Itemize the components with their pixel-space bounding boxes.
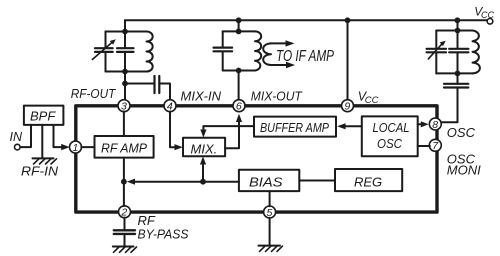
wire: bias tap up to MIX [202, 162, 204, 182]
label RF BY-PASS [138, 213, 189, 242]
ground: RF-IN [33, 158, 57, 164]
capacitor: RF by-pass [114, 230, 135, 234]
svg-text:OSC: OSC [447, 125, 476, 140]
pin 1 [70, 141, 82, 154]
wire: secondary top lead to IF amp [271, 42, 286, 44]
arrowhead: bias into RF AMP node [127, 179, 135, 185]
wire: pin 9 VCC feed [347, 20, 349, 100]
capacitor: OSC series [444, 84, 468, 88]
IC package outline [76, 106, 437, 212]
wire: MIX tank feed from rail [238, 20, 240, 31]
wire: RF tank top bar [106, 31, 147, 33]
wire: buffer node to MIX LO injection [203, 126, 254, 132]
wire: secondary bottom lead to IF amp [271, 64, 286, 66]
wire: MIX tank to pin 6 [238, 71, 240, 100]
svg-text:8: 8 [432, 119, 438, 131]
svg-text:MIX-OUT: MIX-OUT [251, 89, 303, 104]
block: BIAS [239, 170, 299, 191]
arrowhead: to IF amp (bottom) [286, 62, 295, 68]
wire: LOCAL OSC to pin 7 [418, 145, 430, 147]
svg-text:BY-PASS: BY-PASS [138, 227, 189, 242]
variable capacitor: RF tank tuning [92, 32, 116, 72]
wire: pin 1 to RF AMP [81, 146, 94, 148]
svg-text:LOCAL: LOCAL [373, 120, 410, 135]
wire: RF AMP to pin 3 [123, 112, 125, 137]
svg-text:RF AMP: RF AMP [101, 141, 147, 156]
svg-text:MIX-IN: MIX-IN [181, 89, 222, 104]
capacitor: RF tank fixed [117, 32, 134, 72]
svg-text:BIAS: BIAS [249, 175, 283, 190]
capacitor: OSC tank fixed [449, 31, 468, 74]
inductor: OSC tank coil [473, 31, 480, 74]
svg-text:IN: IN [10, 129, 23, 144]
pin 7 [429, 139, 441, 152]
wire: RF tank to pin 3 [124, 72, 126, 100]
block: BUFFER AMP [254, 117, 336, 137]
arrowhead: bias into MIX bottom [200, 157, 206, 165]
variable capacitor: OSC tank tuning [427, 31, 446, 74]
wire: RF tank feed from rail [124, 20, 126, 31]
wire: LOCAL OSC to BUFFER AMP [345, 125, 362, 127]
wire: tap to coupling capacitor [125, 83, 154, 85]
arrowhead: into BUFFER AMP [337, 123, 346, 129]
wire: OSC tank feed from rail [457, 20, 459, 30]
wire: series capacitor to pin 8 [441, 89, 457, 123]
svg-text:RF-IN: RF-IN [21, 164, 59, 179]
wire: BIAS to REG [299, 180, 335, 182]
label VCC (top right) [474, 4, 494, 20]
wire: bypass capacitor to ground [124, 235, 126, 246]
pin 3 [118, 100, 130, 113]
ground: RF by-pass [113, 247, 137, 253]
svg-text:BPF: BPF [30, 109, 56, 124]
junction: OSC tank top [455, 28, 461, 34]
wire: OSC tank to series capacitor [457, 73, 459, 82]
svg-text:MIX.: MIX. [191, 141, 218, 156]
junction: top rail / pin 9 feed [345, 17, 351, 23]
pin 6 [233, 100, 245, 113]
junction: RF tank top [122, 29, 128, 35]
pin 9 [342, 100, 354, 113]
inductor: MIX tank primary coil [255, 31, 261, 70]
wire: OSC tank bottom bar [436, 72, 472, 74]
terminal: IN [14, 144, 20, 150]
svg-text:9: 9 [344, 101, 350, 113]
inductor: IF transformer secondary [263, 43, 271, 65]
svg-text:CC: CC [365, 95, 379, 106]
svg-text:OSC: OSC [377, 136, 403, 151]
svg-text:RF-OUT: RF-OUT [71, 86, 116, 101]
wire: OSC tank top bar [436, 30, 472, 32]
label LOCAL OSC [373, 120, 410, 151]
wire: VCC top rail [125, 19, 487, 21]
junction: RF AMP bias node [121, 179, 127, 185]
svg-text:1: 1 [73, 142, 79, 154]
arrowhead: into pin 1 [61, 144, 69, 150]
arrowhead: LO injection into MIX top [200, 130, 206, 138]
label VCC (pin 9) [358, 90, 379, 107]
block: RF AMP [95, 136, 154, 158]
svg-text:6: 6 [236, 101, 242, 113]
arrowhead: into pin 8 [421, 121, 429, 127]
terminal: VCC (top right) [487, 19, 493, 25]
svg-text:CC: CC [481, 10, 494, 20]
capacitor: RF-OUT to MIX-IN coupling [155, 76, 160, 93]
pin 8 [429, 118, 441, 131]
arrowhead: to IF amp (top) [286, 40, 295, 46]
wire: MIX tank bottom bar [223, 70, 255, 72]
label OSC MONI (pin 7) [447, 152, 481, 178]
junction: bias line / MIX bias tap [200, 179, 206, 185]
svg-text:REG: REG [354, 174, 382, 189]
ground: pin 5 [259, 246, 283, 252]
wire: BIAS to RF AMP bias node [133, 181, 239, 183]
pin 5 [264, 206, 276, 219]
wire: LOCAL OSC to pin 8 [418, 123, 421, 125]
wire: pin 5 to ground [269, 218, 271, 245]
wire: BPF right leg to pin 1 [54, 125, 63, 147]
junction: OSC tank bottom [455, 71, 461, 77]
arrowhead: into MIX input [175, 144, 183, 150]
capacitor: MIX tank [214, 31, 233, 70]
pin 4 [164, 100, 176, 113]
block: LOCAL OSC [362, 116, 418, 156]
arrowhead: MIX output into pin 6 [236, 114, 242, 122]
block: MIX [183, 138, 225, 157]
wire: IN terminal to BPF left leg [20, 125, 31, 147]
svg-text:MONI: MONI [447, 163, 481, 178]
wire: pin 2 to bypass capacitor [124, 218, 126, 230]
block: REG [335, 169, 402, 191]
inductor: RF tank coil [147, 32, 153, 72]
wire: MIX tank top bar [223, 30, 255, 32]
svg-text:BUFFER AMP: BUFFER AMP [260, 121, 330, 135]
junction: top rail / RF tank feed [236, 17, 242, 23]
wire: RF tank bottom bar [106, 71, 147, 73]
junction: RF tank bottom [122, 69, 128, 75]
junction: top rail / OSC tank feed [455, 17, 461, 23]
wire: coupling capacitor to pin 4 [159, 84, 170, 100]
wire: BPF middle leg to ground [41, 125, 43, 158]
block: BPF [24, 106, 64, 125]
wire: pin 4 to MIX input [170, 112, 178, 148]
wire: RF AMP bottom to pin 2 [123, 158, 125, 206]
svg-text:TO IF AMP: TO IF AMP [276, 48, 334, 65]
junction: MIX tank top [236, 29, 242, 35]
wire: BIAS bottom to pin 5 [269, 191, 271, 206]
wire: MIX output to pin 6 [225, 120, 239, 149]
junction: RF-OUT coupling tap [122, 81, 128, 87]
junction: MIX tank bottom [236, 68, 242, 74]
pin 2 [119, 206, 131, 219]
